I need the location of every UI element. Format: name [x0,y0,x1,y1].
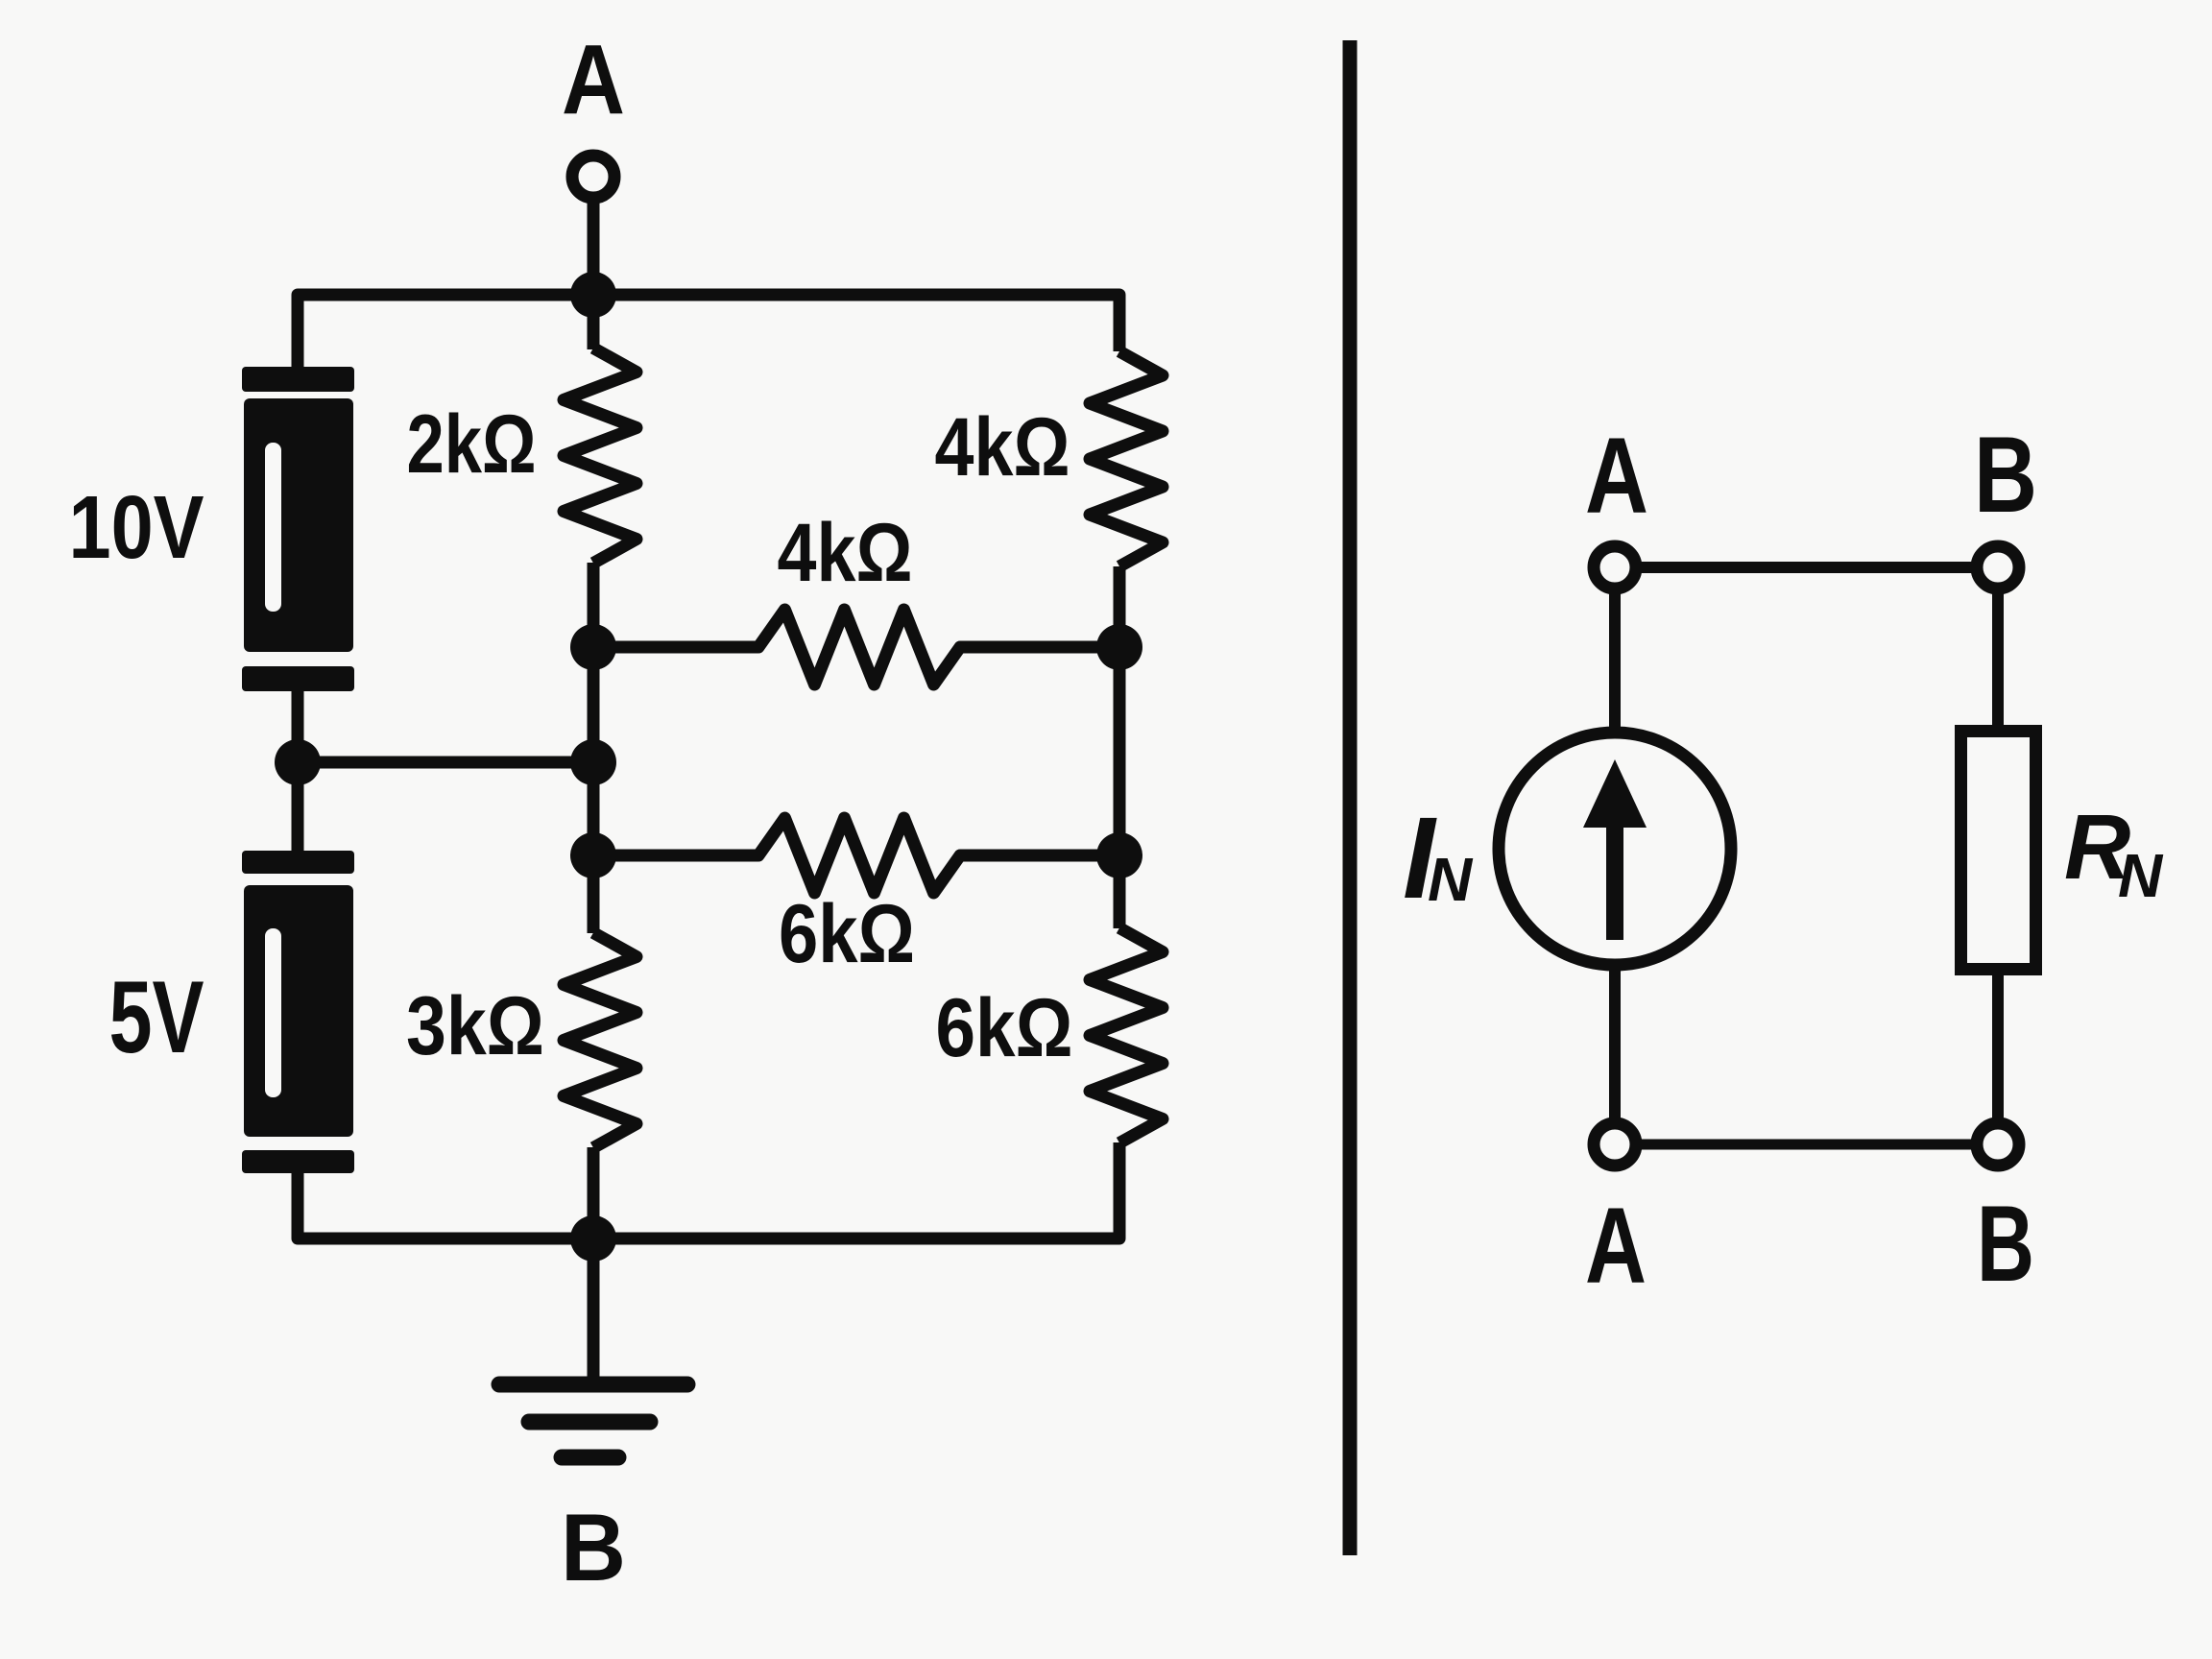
node center 4k row [570,624,616,670]
terminal A circle [572,156,614,198]
battery 5V slot [265,928,281,1097]
wire terminal A stub [588,203,600,349]
ground bar 3 [562,1450,618,1466]
battery 5V body [244,885,353,1137]
resistor R 3k zigzag [564,933,637,1148]
ground bar 2 [529,1414,650,1431]
resistor R 4k horizontal row [593,610,1119,685]
divider line [1343,40,1358,1555]
svg-text:6kΩ: 6kΩ [936,982,1073,1074]
wire RN bottom lead [1992,969,2004,1123]
wire IN top lead [1609,589,1621,733]
wire top rail [298,295,1119,367]
wire node mid horizontal [298,757,593,769]
battery 5V bottom plate [242,1150,354,1173]
node battery mid-left [275,739,321,785]
svg-text:5V: 5V [109,959,204,1074]
node right 4k row [1096,624,1142,670]
current source arrow head [1583,759,1647,828]
wire IN bottom lead [1609,965,1621,1123]
wire battery column mid [292,691,304,851]
svg-text:B: B [1977,1184,2034,1304]
svg-text:4kΩ: 4kΩ [778,507,913,599]
svg-text:N: N [2118,841,2164,910]
svg-text:B: B [561,1494,626,1600]
current source arrow shaft [1606,821,1623,940]
node right 6k row [1096,832,1142,878]
ground bar 1 [499,1377,687,1393]
svg-text:A: A [1585,1186,1647,1306]
battery 10V slot [265,443,281,612]
svg-text:3kΩ: 3kΩ [406,980,544,1072]
node bottom junction [570,1215,616,1262]
svg-text:A: A [562,24,625,134]
wire bottom rail [298,1142,1119,1238]
battery 10V body [244,398,353,652]
battery 10V top plate [242,367,354,392]
node center 6k row [570,832,616,878]
svg-text:A: A [1585,416,1648,536]
terminal B top right [1977,546,2019,589]
resistor R 4k vertical zigzag [1090,351,1163,566]
svg-text:10V: 10V [69,477,204,577]
svg-text:B: B [1974,415,2037,535]
wire norton bottom [1636,1140,1977,1150]
svg-text:2kΩ: 2kΩ [407,398,537,491]
resistor R 2k zigzag [564,349,637,564]
wire norton top [1636,562,1977,573]
resistor RN box [1961,732,2036,970]
wire right column mid [1114,566,1126,928]
wire center column mid [588,563,600,933]
current source IN circle [1499,733,1731,965]
svg-text:N: N [1428,845,1474,914]
terminal B bottom right [1977,1123,2019,1166]
svg-text:4kΩ: 4kΩ [935,401,1070,493]
wire RN top lead [1992,589,2004,731]
battery 5V top plate [242,851,354,874]
resistor R 6k vertical zigzag [1090,928,1163,1143]
battery 10V bottom plate [242,666,354,691]
terminal A bottom right [1594,1123,1636,1166]
node A junction [570,272,616,318]
wire center column to ground [588,1147,600,1379]
svg-text:6kΩ: 6kΩ [779,888,915,980]
resistor R 6k horizontal row [593,818,1119,893]
terminal A top right [1594,546,1636,589]
node center mid [570,739,616,785]
